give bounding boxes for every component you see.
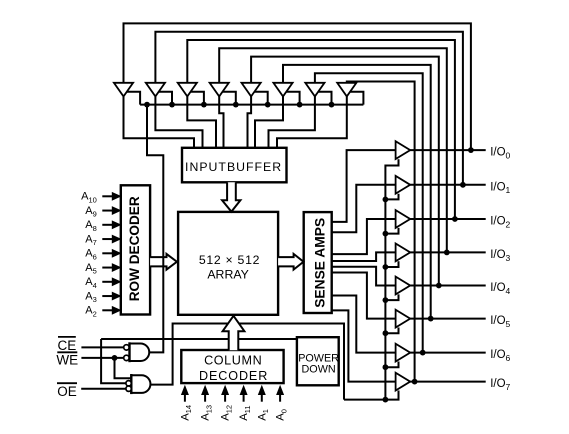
sense amps box U5 xyxy=(304,212,332,313)
input A3 with arrow xyxy=(85,290,121,304)
wire: T2 output staircase into input buffer box xyxy=(155,97,202,148)
wire: T2 side tap to write bus xyxy=(159,92,172,105)
wire: T8 output staircase into input buffer box xyxy=(277,97,347,148)
wire: T7 side tap to write bus xyxy=(318,92,331,105)
row decoder box U2 xyxy=(121,185,150,314)
input A9 with arrow xyxy=(85,205,121,219)
wire: T5 output staircase into input buffer box xyxy=(248,97,252,148)
wire: I/O1 output line xyxy=(410,184,486,186)
wire: CE input to G1 xyxy=(81,346,123,348)
wire: sense amp output to output buffer B8 xyxy=(332,310,396,381)
output buffer B3 (I/O2) xyxy=(396,210,411,228)
wire: T1 side tap to write bus xyxy=(127,92,140,105)
svg-text:COLUMN: COLUMN xyxy=(204,354,262,368)
svg-text:WE: WE xyxy=(56,352,78,367)
junction on I/O3 row line xyxy=(444,250,450,256)
junction: T6 side tap on bus xyxy=(297,102,303,108)
input buffer T6 (I/O5) xyxy=(273,83,292,97)
junction on I/O4 row line xyxy=(436,283,442,289)
input buffer T3 (I/O2) xyxy=(178,83,197,97)
junction: enable tap B2 xyxy=(383,197,389,203)
svg-text:OE: OE xyxy=(57,384,77,399)
wire: CE branch down to G2 xyxy=(101,339,126,383)
svg-text:ARRAY: ARRAY xyxy=(207,267,248,281)
wire: T6 side tap to write bus xyxy=(286,92,299,105)
output buffer B1 (I/O0) xyxy=(396,141,411,159)
input buffer T2 (I/O1) xyxy=(146,83,165,97)
wire: enable tap into B6 xyxy=(385,328,398,334)
junction: enable tap B7 xyxy=(383,364,389,370)
label I/O4 xyxy=(490,282,510,296)
junction: T2 side tap on bus xyxy=(169,102,175,108)
output buffer B7 (I/O6) xyxy=(396,344,411,362)
wire: I/O2 feedback, over the top into T3, down right side to I/O2 row xyxy=(187,40,458,222)
junction on I/O5 row line xyxy=(428,316,434,322)
junction: enable tap B5 xyxy=(383,297,389,303)
label WE (active low) xyxy=(56,352,78,367)
wire: T6 output staircase into input buffer box xyxy=(255,97,283,148)
input A1 with arrow (column decoder) xyxy=(256,385,270,421)
input A5 with arrow xyxy=(85,262,121,276)
svg-text:ROW DECODER: ROW DECODER xyxy=(127,196,142,301)
junction: enable tap B6 xyxy=(383,330,389,336)
wire: T5 side tap to write bus xyxy=(255,92,268,105)
label I/O1 xyxy=(490,181,510,195)
wire: enable tap into B7 xyxy=(385,362,398,368)
junction: enable tap B4 xyxy=(383,264,389,270)
wire: OE gate output route to output-enable rail xyxy=(151,324,345,400)
wide arrow: row decoder to array xyxy=(150,254,177,270)
output buffer B4 (I/O3) xyxy=(396,244,411,262)
memory array box U4 512x512 xyxy=(178,212,278,315)
svg-text:DECODER: DECODER xyxy=(199,369,268,383)
input buffer T5 (I/O4) xyxy=(242,83,261,97)
junction on I/O7 row line xyxy=(412,379,418,385)
wire: sense amp output to output buffer B1 xyxy=(332,150,396,222)
input buffer T4 (I/O3) xyxy=(210,83,229,97)
wire: enable tap into B5 xyxy=(385,294,398,300)
column decoder box U6 xyxy=(181,350,283,383)
output buffer B2 (I/O1) xyxy=(396,176,411,194)
wire: T4 side tap to write bus xyxy=(223,92,236,105)
input buffer T1 (I/O0) xyxy=(114,83,133,97)
label I/O7 xyxy=(490,378,510,392)
wire: T3 output staircase into input buffer box xyxy=(187,97,216,148)
label I/O6 xyxy=(490,349,510,363)
wire: write data bus under input buffers xyxy=(140,102,363,108)
junction: T4 side tap on bus xyxy=(233,102,239,108)
input A4 with arrow xyxy=(85,276,121,290)
input buffer box U3 xyxy=(182,148,287,183)
wire: I/O4 feedback, over the top into T5, down right side to I/O4 row xyxy=(251,57,442,289)
wire: enable tap into B2 xyxy=(385,194,398,200)
input A7 with arrow xyxy=(85,233,121,247)
wire: T7 output staircase into input buffer box xyxy=(269,97,315,148)
wire: I/O4 output line xyxy=(410,285,486,287)
wire: I/O7 output line xyxy=(410,381,486,383)
label CE (active low) xyxy=(58,337,77,353)
label I/O3 xyxy=(490,249,510,263)
wire: CE to power-down net xyxy=(101,338,297,340)
wire: I/O1 feedback, over the top into T2, down right side to I/O1 row xyxy=(155,32,465,188)
svg-text:CE: CE xyxy=(58,338,77,353)
label I/O0 xyxy=(490,147,510,161)
and-gate G1 (CE, WE) xyxy=(124,342,150,362)
wire: WE input to G1 xyxy=(81,355,123,361)
input A2 with arrow xyxy=(85,305,121,319)
label I/O2 xyxy=(490,216,510,230)
node: write-enable junction on bus xyxy=(144,102,150,108)
wire: I/O6 feedback, over the top into T7, down right side to I/O6 row xyxy=(315,73,426,355)
wire: sense amp output to output buffer B6 xyxy=(332,273,396,319)
wire: enable bottom run into B8 xyxy=(344,391,399,400)
wire: I/O5 feedback, over the top into T6, down right side to I/O5 row xyxy=(283,65,434,322)
wire: I/O2 output line xyxy=(410,218,486,220)
wire: I/O5 output line xyxy=(410,318,486,320)
wire: T1 output staircase into input buffer box xyxy=(124,97,195,148)
label I/O5 xyxy=(490,315,510,329)
wire: output enable rail down right of sense amps xyxy=(383,159,399,402)
wire: T3 side tap to write bus xyxy=(191,92,204,105)
junction: T5 side tap on bus xyxy=(265,102,271,108)
wire: sense amp output to output buffer B2 xyxy=(332,185,396,232)
wire: sense amp output to output buffer B3 xyxy=(332,219,396,254)
junction: enable tap B3 xyxy=(383,231,389,237)
input buffer T7 (I/O6) xyxy=(305,83,324,97)
junction: enable rail bottom xyxy=(383,397,389,403)
wire: I/O7 feedback, over the top into T8, down right side to I/O7 row xyxy=(347,82,418,385)
junction on I/O6 row line xyxy=(420,350,426,356)
label OE (active low) xyxy=(57,383,77,399)
input A8 with arrow xyxy=(85,219,121,233)
svg-text:INPUTBUFFER: INPUTBUFFER xyxy=(185,160,282,174)
input A0 with arrow (column decoder) xyxy=(275,385,289,421)
wire: sense amp output to output buffer B5 xyxy=(332,267,396,286)
wide arrow: column decoder to array xyxy=(223,316,245,350)
input A10 with arrow xyxy=(81,191,121,205)
output buffer B6 (I/O5) xyxy=(396,310,411,328)
output buffer B8 (I/O7) xyxy=(396,373,411,391)
wide arrow: array to sense amps xyxy=(278,254,303,270)
junction: WE branch xyxy=(112,355,118,361)
wire: I/O3 output line xyxy=(410,251,486,253)
wire: I/O3 feedback, over the top into T4, down right side to I/O3 row xyxy=(219,48,449,255)
wire: T8 side tap to write bus xyxy=(350,92,363,105)
wire: OE input to G2 xyxy=(81,388,126,390)
wire: sense amp output to output buffer B7 xyxy=(332,296,396,353)
junction on I/O2 row line xyxy=(452,216,458,222)
wire: enable tap into B4 xyxy=(385,261,398,267)
input A12 with arrow (column decoder) xyxy=(220,385,234,421)
and-gate G2 (WE, CE, OE output enable) xyxy=(126,374,151,394)
junction: T7 side tap on bus xyxy=(329,102,335,108)
wire: sense amp output to output buffer B4 xyxy=(332,252,396,261)
svg-text:512 × 512: 512 × 512 xyxy=(199,253,260,267)
wire: enable tap into B3 xyxy=(385,228,398,234)
junction on I/O1 row line xyxy=(460,182,466,188)
wide arrow: input buffer to array xyxy=(222,182,240,211)
wire: WE branch down to G2 xyxy=(115,358,132,378)
wire: I/O0 feedback, over the top into T1, down right side to I/O0 row xyxy=(124,23,474,153)
svg-text:SENSE AMPS: SENSE AMPS xyxy=(313,218,328,308)
wire: I/O0 output line xyxy=(410,149,486,151)
power down box U7 xyxy=(297,337,339,385)
input A6 with arrow xyxy=(85,248,121,262)
wire: write enable from gate G1 up to bus junction xyxy=(147,105,163,353)
wire: T4 output staircase into input buffer box xyxy=(219,97,223,148)
junction on I/O0 row line xyxy=(468,147,474,153)
input buffer T8 (I/O7) xyxy=(337,83,356,97)
wire: I/O6 output line xyxy=(410,352,486,354)
input A11 with arrow (column decoder) xyxy=(238,385,252,421)
svg-text:DOWN: DOWN xyxy=(302,363,336,375)
input A13 with arrow (column decoder) xyxy=(200,385,214,421)
output buffer B5 (I/O4) xyxy=(396,277,411,295)
input A14 with arrow (column decoder) xyxy=(180,385,194,421)
junction: T3 side tap on bus xyxy=(201,102,207,108)
